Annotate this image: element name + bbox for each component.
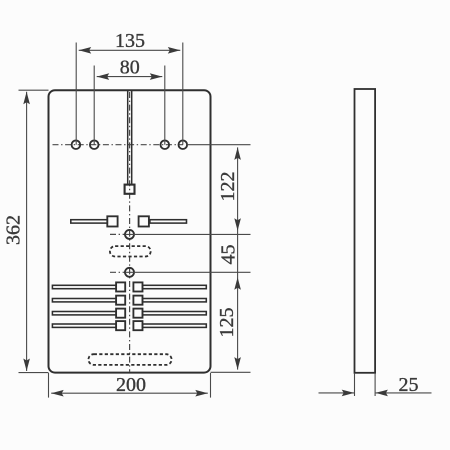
svg-text:122: 122 — [217, 172, 239, 202]
svg-text:25: 25 — [399, 374, 419, 396]
svg-text:45: 45 — [218, 245, 240, 265]
svg-text:80: 80 — [120, 56, 140, 78]
svg-text:135: 135 — [115, 30, 145, 52]
svg-text:200: 200 — [116, 374, 146, 396]
svg-text:362: 362 — [3, 215, 25, 245]
svg-text:125: 125 — [216, 308, 238, 338]
